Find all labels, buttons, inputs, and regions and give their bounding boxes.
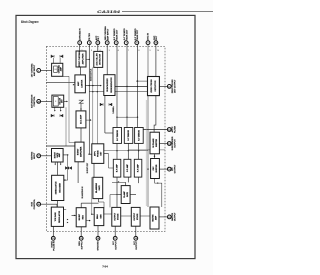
- svg-text:MATRIX: MATRIX: [152, 214, 155, 222]
- svg-text:REGENERATOR: REGENERATOR: [110, 77, 113, 93]
- svg-text:OUTPUT: OUTPUT: [175, 212, 177, 221]
- svg-text:OUTPUT: OUTPUT: [175, 164, 177, 173]
- svg-text:B-Y DEMOD: B-Y DEMOD: [117, 129, 119, 140]
- svg-text:BURST: BURST: [78, 148, 80, 155]
- svg-text:CONTROL: CONTROL: [34, 96, 36, 107]
- svg-text:CONTROL: CONTROL: [34, 198, 36, 209]
- svg-text:PULSE IN: PULSE IN: [54, 241, 56, 251]
- svg-text:OUTPUT: OUTPUT: [115, 240, 117, 249]
- svg-text:3.58MHz: 3.58MHz: [113, 106, 115, 113]
- svg-text:OUTPUT: OUTPUT: [114, 212, 116, 221]
- svg-text:BLANKING: BLANKING: [95, 182, 98, 193]
- svg-text:GEN: GEN: [100, 214, 102, 219]
- svg-text:7-54: 7-54: [102, 265, 108, 269]
- svg-text:SUBCARRIER: SUBCARRIER: [106, 78, 109, 92]
- svg-text:SUPPLY: SUPPLY: [81, 241, 83, 250]
- svg-text:OUTPUT: OUTPUT: [134, 212, 136, 221]
- svg-text:TANK CKT: TANK CKT: [136, 29, 139, 40]
- svg-text:DECODER: DECODER: [59, 183, 61, 193]
- svg-text:CA3194: CA3194: [97, 10, 120, 14]
- svg-text:INPUT: INPUT: [34, 152, 36, 159]
- svg-text:AFPC: AFPC: [94, 150, 97, 156]
- svg-text:G1: G1: [54, 69, 56, 71]
- svg-text:OUTPUT: OUTPUT: [136, 240, 138, 249]
- svg-text:BUFFER: BUFFER: [156, 164, 158, 172]
- svg-text:ACC KILLER: ACC KILLER: [96, 53, 99, 66]
- svg-text:GATE: GATE: [126, 191, 129, 197]
- svg-text:DET OUTPUT: DET OUTPUT: [175, 79, 177, 93]
- svg-text:STAGE: STAGE: [116, 213, 119, 220]
- svg-text:PHASE: PHASE: [97, 150, 100, 157]
- svg-text:FILTER: FILTER: [89, 33, 91, 41]
- svg-text:TANK CKT: TANK CKT: [125, 29, 128, 40]
- svg-text:B-Y AMP: B-Y AMP: [116, 164, 119, 173]
- svg-text:FILT: FILT: [98, 35, 100, 40]
- svg-text:OUTPUT: OUTPUT: [175, 138, 177, 147]
- svg-text:LIMITER: LIMITER: [82, 79, 84, 88]
- svg-text:OSC IN: OSC IN: [148, 33, 150, 41]
- svg-text:OUT: OUT: [156, 35, 158, 40]
- svg-text:ACC AMP: ACC AMP: [80, 114, 83, 124]
- svg-text:CHROMA IN: CHROMA IN: [78, 28, 81, 40]
- svg-text:AMP INPUT: AMP INPUT: [33, 64, 36, 76]
- svg-text:R-Y AMP: R-Y AMP: [137, 164, 140, 173]
- svg-text:FIRST CHROMA: FIRST CHROMA: [78, 51, 81, 67]
- svg-text:GROUND: GROUND: [98, 241, 100, 251]
- svg-text:AMPLIFIER: AMPLIFIER: [81, 53, 84, 64]
- svg-text:90 PHASE: 90 PHASE: [152, 138, 155, 148]
- svg-text:CLAMP: CLAMP: [123, 191, 126, 198]
- svg-text:AMP: AMP: [77, 81, 80, 86]
- svg-text:SANDCASTLE: SANDCASTLE: [90, 68, 93, 81]
- svg-text:BIAS: BIAS: [96, 214, 99, 219]
- svg-text:GATE: GATE: [98, 185, 101, 191]
- svg-text:REGULATOR: REGULATOR: [58, 210, 61, 222]
- svg-text:OSC: OSC: [153, 166, 155, 171]
- svg-text:AMP INPUT: AMP INPUT: [106, 28, 109, 40]
- svg-text:SHIFTER: SHIFTER: [156, 138, 158, 147]
- svg-text:AMPLIFIER: AMPLIFIER: [80, 146, 83, 157]
- svg-text:VOLTAGE: VOLTAGE: [54, 212, 57, 222]
- svg-text:Block Diagram: Block Diagram: [21, 20, 39, 24]
- svg-text:SHUNT: SHUNT: [79, 213, 81, 220]
- svg-text:BURST KEY: BURST KEY: [87, 162, 89, 173]
- svg-text:TANK CKT: TANK CKT: [115, 29, 118, 40]
- svg-text:DETECTOR: DETECTOR: [155, 80, 157, 92]
- svg-text:BLANKING IN: BLANKING IN: [81, 186, 84, 198]
- svg-text:G-Y DEMOD: G-Y DEMOD: [128, 129, 130, 141]
- svg-text:STAGE: STAGE: [136, 213, 139, 220]
- svg-text:R-Y DEMOD: R-Y DEMOD: [139, 129, 141, 140]
- svg-text:REG: REG: [82, 215, 84, 220]
- svg-text:ZERO CROSS: ZERO CROSS: [151, 79, 153, 93]
- svg-text:G-Y AMP: G-Y AMP: [126, 163, 129, 172]
- svg-text:SANDCASTLE: SANDCASTLE: [54, 181, 57, 195]
- svg-text:DETECTOR: DETECTOR: [99, 53, 101, 65]
- svg-text:FILTER: FILTER: [175, 125, 177, 133]
- svg-text:AMP: AMP: [155, 215, 158, 220]
